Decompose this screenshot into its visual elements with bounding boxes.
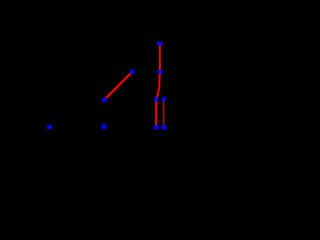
node C	[130, 70, 135, 74]
wire E2: slightly diagonal edge node B to node E	[156, 72, 160, 100]
node J	[161, 125, 166, 129]
wire E3: vertical edge node E to node I	[155, 99, 157, 127]
wire E5: diagonal edge node D to node C	[104, 72, 131, 100]
wire E4: thin vertical edge node F to node J	[163, 99, 165, 127]
node F	[162, 97, 167, 101]
node H	[102, 125, 107, 129]
wire E1: vertical edge node A to node B	[159, 44, 161, 72]
node I	[154, 125, 159, 129]
node E	[154, 97, 159, 101]
node D	[102, 98, 107, 102]
node A (top marker)	[157, 42, 162, 46]
node G (isolated left marker)	[47, 125, 52, 129]
node B	[157, 70, 163, 74]
